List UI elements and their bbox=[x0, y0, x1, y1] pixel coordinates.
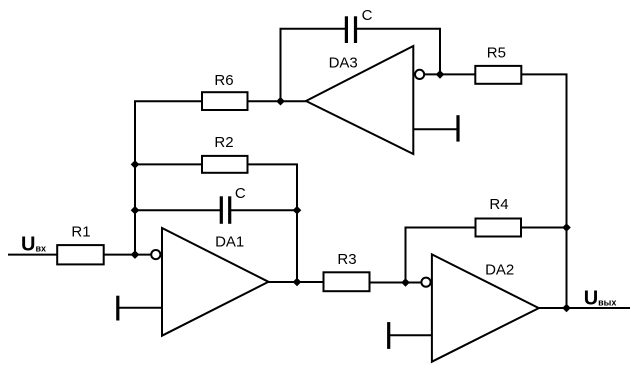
op-amp DA3 bbox=[306, 46, 413, 154]
svg-text:DA2: DA2 bbox=[485, 262, 514, 279]
wire: R6 right lead to DA3 input apex bbox=[248, 100, 307, 102]
capacitor C (middle, over DA1) bbox=[221, 196, 229, 224]
resistor R6 bbox=[202, 92, 248, 110]
wire: top capacitor loop left (node B up and right to C plate) bbox=[281, 29, 346, 102]
capacitor C (top, over DA3) bbox=[346, 16, 355, 43]
wire: DA2 ground lead bbox=[389, 334, 432, 336]
svg-text:DA1: DA1 bbox=[215, 233, 244, 250]
wire: mid capacitor right lead bbox=[231, 209, 297, 211]
svg-text:Uвх: Uвх bbox=[21, 234, 46, 256]
wire: R2 right lead, vertical down to DA1 output node bbox=[248, 164, 298, 282]
wire: output lead (DA2 output to Uвых) bbox=[539, 307, 630, 309]
wire: R2 left lead bbox=[135, 163, 202, 165]
svg-text:R5: R5 bbox=[487, 45, 506, 62]
resistor R2 bbox=[202, 156, 248, 173]
op-amp DA1 bbox=[162, 228, 269, 336]
svg-text:R4: R4 bbox=[489, 196, 508, 213]
wire: R3 to DA2 inverting input bubble bbox=[370, 282, 421, 284]
wire: R4 right lead to right bus bbox=[521, 227, 567, 229]
wire: left feedback bus (R6 row left lead, vertical down to node A) bbox=[135, 101, 202, 254]
svg-text:DA3: DA3 bbox=[329, 55, 358, 72]
junction: R4 on right bus bbox=[562, 223, 571, 232]
wire: input lead to R1 bbox=[8, 254, 57, 256]
junction: output node Uвых bbox=[562, 304, 571, 313]
resistor R3 bbox=[324, 272, 370, 291]
svg-text:C: C bbox=[362, 7, 373, 24]
wire: top capacitor loop right (C plate to corner, down to DA3 output) bbox=[357, 29, 440, 75]
junction: node B (R6 / top C / DA3 input) bbox=[276, 97, 285, 106]
ground bar at DA3 bbox=[456, 115, 459, 141]
svg-text:R2: R2 bbox=[214, 134, 233, 151]
resistor R1 bbox=[57, 245, 103, 264]
junction: node C (R3 / R4 / DA2 input) bbox=[401, 278, 410, 287]
wire: R5 to right bus, down to output node bbox=[521, 74, 566, 308]
svg-text:R3: R3 bbox=[337, 251, 356, 268]
svg-text:R1: R1 bbox=[71, 223, 90, 240]
wire: DA1 output to R3 bbox=[269, 281, 324, 283]
op-amp DA3 output inversion bubble bbox=[415, 70, 424, 79]
op-amp DA2 input inversion bubble bbox=[421, 278, 430, 287]
op-amp DA2 bbox=[432, 254, 539, 361]
ground bar at DA1 bbox=[116, 296, 119, 321]
wire: R4 loop left (node C up and right to R4) bbox=[406, 228, 476, 283]
junction: mid C right bbox=[293, 206, 302, 215]
junction: R2 left on bus bbox=[131, 160, 140, 169]
junction: DA1 output node bbox=[293, 278, 302, 287]
wire: DA3 ground lead bbox=[413, 128, 458, 130]
resistor R4 bbox=[476, 219, 522, 237]
wire: DA3 output bubble to R5 bbox=[424, 73, 475, 75]
resistor R5 bbox=[475, 66, 521, 84]
junction: node A (R1 / bus / DA1 input) bbox=[131, 250, 140, 259]
ground bar at DA2 bbox=[387, 322, 390, 349]
wire: R1 to node A (DA1 inverting input) bbox=[104, 254, 152, 256]
svg-text:R6: R6 bbox=[214, 72, 233, 89]
junction: mid C left on bus bbox=[131, 206, 140, 215]
junction: DA3 output / top C bbox=[436, 70, 445, 79]
svg-text:Uвых: Uвых bbox=[584, 288, 617, 310]
svg-text:C: C bbox=[235, 185, 246, 202]
op-amp DA1 input inversion bubble bbox=[151, 250, 160, 259]
wire: DA1 ground lead bbox=[118, 307, 162, 309]
wire: mid capacitor left lead bbox=[135, 209, 220, 211]
